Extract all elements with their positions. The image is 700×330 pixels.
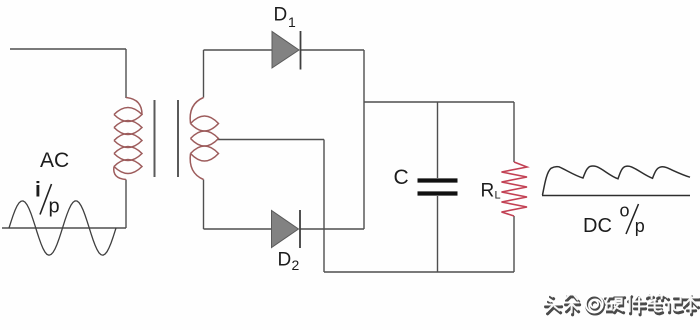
- svg-text:DC: DC: [583, 215, 612, 237]
- svg-text:2: 2: [292, 257, 300, 273]
- svg-text:R: R: [481, 181, 495, 202]
- wire secondary top to D1 anode: [204, 49, 273, 51]
- AC input sine waveform: [9, 201, 116, 255]
- DC output ripple waveform: [543, 166, 691, 195]
- svg-text:p: p: [49, 196, 60, 218]
- svg-text:i: i: [35, 179, 41, 202]
- wire secondary bottom vertical: [203, 180, 205, 230]
- wire left vertical lower: [125, 180, 127, 229]
- wire top-left horizontal: [10, 48, 126, 50]
- resistor RL zigzag: [502, 162, 528, 216]
- wire capacitor bottom lead: [437, 196, 439, 272]
- capacitor C plates: [418, 181, 458, 194]
- svg-text:p: p: [635, 216, 645, 236]
- wire bottom-left horizontal (AC axis): [2, 227, 126, 229]
- transformer core: [155, 100, 179, 177]
- wire resistor bottom lead: [513, 216, 515, 272]
- wire right vertical (D1/D2 junction): [363, 50, 365, 229]
- wire top node horizontal: [364, 101, 514, 103]
- svg-text:AC: AC: [40, 149, 69, 172]
- label i/p input fraction: [35, 179, 60, 218]
- wire resistor top lead: [513, 102, 515, 162]
- wire center tap horizontal: [217, 139, 324, 141]
- inductor L2 secondary winding: [190, 98, 218, 180]
- inductor L1 primary winding: [114, 98, 142, 180]
- diode D2: [272, 210, 301, 248]
- wire capacitor top lead: [437, 102, 439, 178]
- wire secondary bottom to D2 anode: [204, 228, 273, 230]
- wire center tap vertical: [323, 140, 325, 273]
- svg-text:D: D: [278, 250, 292, 271]
- svg-text:o: o: [620, 201, 630, 221]
- label DC o/p: [583, 201, 645, 238]
- wire left vertical upper: [125, 49, 127, 98]
- wire D2 cathode to junction: [300, 228, 364, 230]
- DC output baseline: [542, 195, 690, 197]
- svg-text:C: C: [394, 166, 409, 189]
- diode D1: [272, 31, 301, 70]
- wire D1 cathode to right: [300, 49, 364, 51]
- svg-text:L: L: [495, 190, 501, 202]
- wire secondary top vertical: [203, 50, 205, 98]
- watermark: [545, 295, 562, 314]
- wire bottom node horizontal: [324, 271, 514, 273]
- svg-text:D: D: [274, 5, 288, 26]
- svg-text:1: 1: [288, 14, 296, 30]
